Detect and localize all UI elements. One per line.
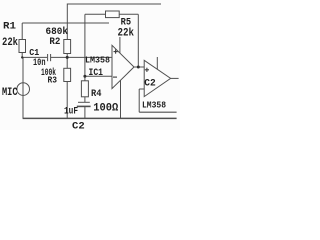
node U1 output junction [137,66,140,69]
op-amp U1 plus sign [114,51,118,53]
wire R2 bottom stem [66,54,68,58]
wire U2 feedback drop [138,89,140,112]
wire - input horizontal [85,75,112,77]
wire C1 to op-amp + input [51,56,112,58]
svg-text:LM358: LM358 [142,100,166,111]
wire top V+ rail [67,3,161,5]
wire R4 top stem [84,76,86,81]
op-amp U2 plus sign [145,69,149,71]
svg-text:R4: R4 [91,88,102,100]
svg-text:MIC: MIC [2,87,18,99]
op-amp U2 V+ pin [156,57,158,69]
svg-text:R1: R1 [3,21,16,33]
wire output vertical drop [137,14,139,67]
node mic/C1 junction [21,56,23,58]
wire U1 output to U2 + input [134,66,144,68]
svg-text:IC1: IC1 [89,67,104,79]
wire R1 top horizontal [22,22,109,24]
capacitor C2 [78,101,90,103]
svg-text:C2: C2 [144,78,156,90]
resistor R2 [64,40,71,54]
svg-text:22k: 22k [118,27,135,39]
svg-text:1uF: 1uF [64,106,78,118]
wire bottom ground rail [23,117,177,119]
wire R1 top stem [21,23,23,40]
wire U2 - input [139,88,144,90]
wire mic node to C1 [22,56,47,58]
wire U2 feedback bottom [139,111,176,113]
node R2/R3 signal junction [66,56,69,59]
wire V+ drop to R2 [66,4,68,40]
resistor R5 [106,11,120,18]
svg-text:100Ω: 100Ω [93,103,118,115]
wire feedback top to R5 [85,13,106,15]
svg-text:C2: C2 [72,121,85,130]
resistor R4 [81,81,88,97]
op-amp U1 minus sign [113,76,117,78]
op-amp U1 triangle [112,45,134,88]
capacitor C1 [47,54,49,61]
resistor R1 [19,40,26,53]
wire R3 bottom to ground rail [66,82,68,119]
wire R3 top stem [66,57,68,68]
wire R4 to C2 [84,97,86,103]
microphone MIC [17,83,30,96]
wire R5 to output vertical [119,13,138,15]
wire MIC drop [22,57,24,118]
op-amp U1 V- pin [120,80,122,118]
wire feedback vertical to - node [84,14,86,76]
node - input junction [83,75,86,78]
wire U2 output [171,77,179,79]
op-amp U1 V+ pin [119,37,121,53]
svg-text:LM358: LM358 [85,55,110,66]
wire R1 bottom stem [21,53,23,58]
svg-text:22k: 22k [2,37,18,49]
svg-text:R3: R3 [48,75,58,86]
resistor R3 [64,68,71,81]
wire C2 bottom stem [84,106,86,118]
op-amp U2 triangle [144,60,170,96]
svg-text:R2: R2 [49,36,60,48]
